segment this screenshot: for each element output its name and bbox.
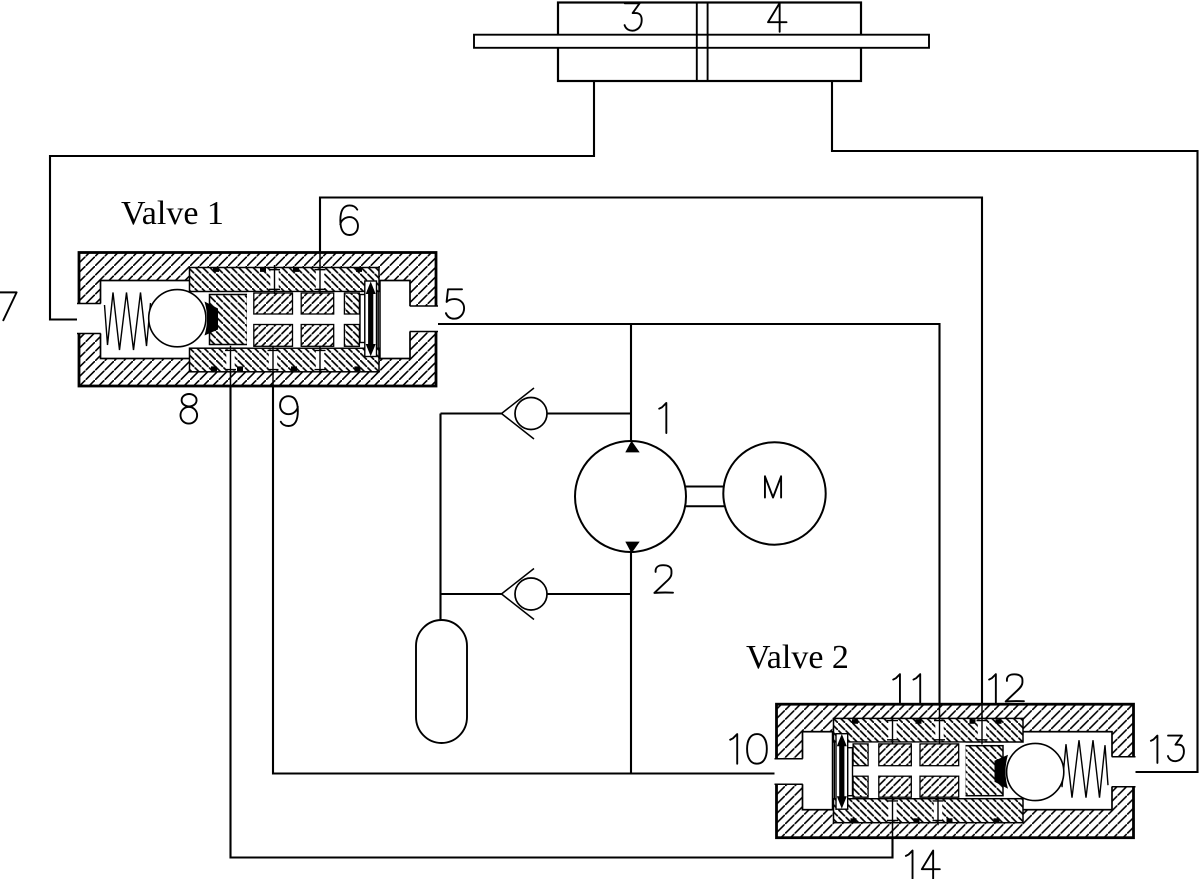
sleeve pin (269, 350, 277, 371)
label 2 (654, 565, 673, 593)
wire pump port2 stub (630, 550, 632, 774)
wire 13 : cylinder right port to valve2 right (832, 81, 1198, 772)
svg-text:Valve 1: Valve 1 (121, 195, 224, 232)
spool land L1 (254, 325, 293, 347)
sleeve pin (226, 350, 234, 371)
wire check valve top (441, 412, 632, 414)
wire pump port1 stub (630, 324, 632, 445)
valve spring (105, 293, 151, 351)
label 5 (446, 289, 464, 318)
wire accumulator riser (439, 414, 441, 622)
valve 2 (180deg rotation of valve 1) (775, 704, 1136, 838)
spool land L2 (301, 325, 334, 347)
wire 8 : valve1 bottom to valve2 bottom port14 (231, 385, 893, 858)
label 13 (1151, 736, 1184, 763)
check valve top (502, 388, 535, 439)
label 14 (906, 851, 940, 879)
label 10 (730, 734, 767, 764)
port marks top (213, 267, 219, 272)
label 12 (989, 674, 1024, 702)
label M (765, 476, 781, 497)
sleeve pin (316, 350, 324, 371)
svg-text:Valve 2: Valve 2 (746, 639, 849, 676)
cylinder piston (697, 3, 708, 82)
sleeve end cap (377, 292, 379, 348)
spool channel (360, 295, 365, 343)
motor circle (723, 442, 825, 544)
valve ball (149, 290, 206, 347)
ports 8,9 through lines (231, 372, 274, 387)
valve right port slot (408, 306, 438, 332)
label 1 (659, 403, 666, 433)
label 6 (340, 205, 358, 235)
spool middle zone (247, 292, 379, 347)
sleeve top bar (190, 268, 380, 292)
sleeve pin (316, 269, 324, 290)
arrow channel (365, 281, 377, 357)
pump arrow down (625, 542, 639, 554)
valve seat wedge (205, 302, 219, 336)
label 8 (180, 394, 197, 424)
label 9 (280, 396, 298, 426)
check valve bottom (502, 569, 535, 620)
port marks bottom (211, 366, 217, 371)
label 4 (768, 3, 786, 32)
cylinder body (558, 3, 861, 82)
spool left piston (210, 295, 248, 345)
label 7 (0, 292, 17, 320)
valve inner cavity (101, 281, 411, 359)
wire 5 : valve1 right to valve2 port11 (437, 324, 940, 705)
double arrow (366, 282, 376, 357)
spool land U2 (301, 293, 334, 314)
valve left port notch (77, 304, 102, 334)
spool land L3 (344, 325, 359, 347)
plug outline (379, 281, 381, 358)
accumulator (416, 620, 467, 743)
valve body (79, 253, 436, 387)
wire check valve bottom (441, 593, 632, 595)
wire 7 : cylinder left port to valve1 left (50, 81, 594, 320)
spool land U3 (344, 293, 359, 314)
shaft coupling (686, 487, 725, 507)
label 3 (625, 3, 642, 30)
cylinder rod (474, 35, 929, 48)
sleeve bottom bar (190, 348, 380, 372)
pump arrow up (625, 441, 639, 453)
pump circle (575, 441, 686, 552)
valve 1 (77, 253, 438, 387)
sleeve pin (270, 269, 278, 290)
port 6 through line (319, 253, 321, 267)
wire 6 : valve1 top to valve2 port12 (320, 198, 982, 705)
spool land U1 (254, 293, 293, 314)
label 11 (893, 674, 920, 702)
wire 9 : valve1 bottom to valve2 left port10 (273, 385, 777, 774)
